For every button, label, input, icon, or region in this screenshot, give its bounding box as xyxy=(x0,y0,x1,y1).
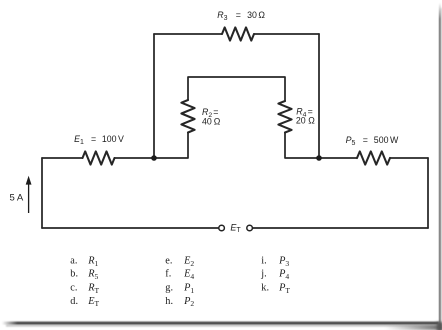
svg-text:V: V xyxy=(118,134,124,144)
wire: R2 top lead and inner top wire xyxy=(188,77,285,101)
wire: R4 bottom lead to node B xyxy=(285,133,319,159)
frame shadow bottom fade xyxy=(6,325,439,327)
wire: left vertical branch xyxy=(41,158,43,228)
svg-text:P5: P5 xyxy=(346,135,356,147)
svg-text:k.: k. xyxy=(261,283,269,294)
svg-text:20: 20 xyxy=(296,115,306,125)
resistor R2 xyxy=(181,100,194,133)
svg-text:=: = xyxy=(213,107,218,117)
svg-text:P3: P3 xyxy=(278,255,289,267)
svg-text:d.: d. xyxy=(70,296,78,307)
resistor R1 (E1 = 100 V) xyxy=(83,151,115,164)
wire: node A to R2 bottom lead xyxy=(154,133,188,159)
frame shadow right rule xyxy=(439,3,441,325)
frame shadow corner xyxy=(385,325,442,330)
wire: top loop right vertical (down to node B) xyxy=(318,34,320,158)
wire: E1 to node A xyxy=(115,157,155,159)
answer list xyxy=(70,255,290,308)
svg-text:Ω: Ω xyxy=(258,10,265,20)
label R3 = 30 ohm xyxy=(217,10,265,22)
frame shadow bottom rule xyxy=(2,322,439,325)
svg-text:5 A: 5 A xyxy=(10,192,24,203)
svg-text:e.: e. xyxy=(165,255,172,266)
svg-text:h.: h. xyxy=(165,296,173,307)
svg-text:500: 500 xyxy=(374,135,389,145)
wire: bottom right segment from terminal xyxy=(252,227,428,229)
svg-text:P4: P4 xyxy=(278,269,289,281)
svg-text:R5: R5 xyxy=(87,269,98,281)
node A junction dot xyxy=(151,155,157,161)
svg-text:Ω: Ω xyxy=(214,117,221,127)
svg-text:i.: i. xyxy=(261,255,266,266)
svg-text:R3: R3 xyxy=(217,10,227,22)
svg-text:PT: PT xyxy=(278,283,290,295)
svg-text:RT: RT xyxy=(87,283,99,295)
svg-text:ET: ET xyxy=(230,222,241,234)
svg-text:=: = xyxy=(236,10,241,20)
svg-text:E1: E1 xyxy=(74,134,84,146)
svg-text:E2: E2 xyxy=(183,255,194,267)
svg-text:c.: c. xyxy=(70,283,77,294)
wire: node B to P5 xyxy=(319,157,357,159)
wire: P5 to right branch xyxy=(390,157,428,159)
resistor R4 xyxy=(278,101,291,133)
resistor R5 (P5 = 500 W) xyxy=(357,151,390,164)
svg-text:=: = xyxy=(91,134,96,144)
wire: top loop horizontal left of R3 xyxy=(154,33,222,35)
svg-text:f.: f. xyxy=(165,269,171,280)
terminal ET right xyxy=(247,225,253,231)
wire: bottom left segment to terminal xyxy=(42,227,219,229)
svg-text:=: = xyxy=(363,135,368,145)
frame shadow right fade xyxy=(441,8,442,324)
svg-text:j.: j. xyxy=(260,269,266,280)
node B junction dot xyxy=(316,155,322,161)
label R4 value xyxy=(296,106,315,125)
wire: top loop left vertical (node A up) xyxy=(153,34,155,158)
svg-text:a.: a. xyxy=(70,255,77,266)
svg-text:30: 30 xyxy=(247,10,257,20)
svg-text:b.: b. xyxy=(70,269,78,280)
svg-text:g.: g. xyxy=(165,283,173,294)
svg-text:P1: P1 xyxy=(183,283,194,295)
svg-text:40: 40 xyxy=(202,117,212,127)
wire: top loop horizontal right of R3 xyxy=(254,33,319,35)
svg-text:ET: ET xyxy=(87,296,99,308)
svg-text:W: W xyxy=(390,135,399,145)
label R2 value xyxy=(202,107,221,127)
label E1 = 100 V xyxy=(74,134,124,146)
svg-text:100: 100 xyxy=(102,134,117,144)
wire: right vertical branch xyxy=(427,158,429,228)
svg-text:Ω: Ω xyxy=(308,115,315,125)
svg-text:R1: R1 xyxy=(87,255,98,267)
current arrow 5 A xyxy=(26,176,32,213)
terminal ET left xyxy=(219,225,225,231)
svg-text:E4: E4 xyxy=(183,269,194,281)
label P5 = 500 W xyxy=(346,135,399,147)
wire: E1 row left lead xyxy=(42,157,83,159)
resistor R3 xyxy=(222,27,254,40)
svg-text:P2: P2 xyxy=(183,296,194,308)
